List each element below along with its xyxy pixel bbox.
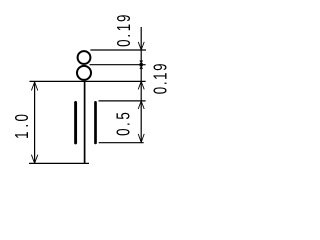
svg-text:9: 9	[114, 15, 135, 22]
label 0.19 (top ball diameter)	[114, 39, 135, 46]
svg-text:.: .	[12, 124, 33, 128]
arrow down at 0.19 top (outside above line B)	[138, 42, 144, 50]
svg-text:5: 5	[113, 112, 134, 119]
extension line A (bottom of ball, y=81.4)	[30, 80, 146, 82]
left pad bar	[74, 103, 77, 143]
top ball (upper circle of component)	[78, 51, 91, 64]
bottom ball (lower circle of component)	[77, 66, 91, 80]
lead wire (vertical lead from bottom ball)	[84, 81, 86, 163]
arrow down at 1.0 bottom	[31, 155, 37, 164]
arrow up at 0.5 top	[138, 101, 144, 109]
label 0.19 (bottom ball diameter)	[150, 87, 171, 94]
dimension line left (1.0 dim)	[34, 82, 36, 163]
arrow down at 0.5 bottom	[138, 134, 144, 143]
svg-text:1: 1	[12, 131, 33, 138]
dimension line right (0.19/0.19/0.5 shared)	[140, 27, 142, 142]
label 1.0 (lead length)	[12, 131, 33, 138]
svg-text:0: 0	[12, 114, 33, 121]
svg-text:1: 1	[114, 24, 135, 31]
svg-text:9: 9	[150, 63, 171, 70]
arrow up at 1.0 top	[31, 82, 37, 91]
svg-text:0: 0	[114, 39, 135, 46]
svg-text:.: .	[150, 81, 171, 85]
svg-text:0: 0	[150, 87, 171, 94]
label 0.5 (pad height)	[113, 128, 134, 135]
extension line D (top of pads, y=100.9)	[99, 100, 146, 102]
svg-text:.: .	[114, 34, 135, 38]
svg-text:1: 1	[150, 72, 171, 79]
extension line E (bottom of pads, y=142.7)	[99, 142, 144, 144]
extension line B (top of top ball, y=49.8)	[90, 49, 146, 51]
double arrow dot at junction line C	[140, 63, 143, 66]
extension line C (junction of balls, y=64.7)	[90, 64, 146, 66]
right pad bar	[94, 102, 97, 142]
extension line F (bottom of lead, y=163.4)	[29, 162, 89, 164]
svg-text:0: 0	[113, 128, 134, 135]
svg-text:.: .	[113, 122, 134, 126]
arrow up at line A (outside below, for lower 0.19)	[138, 81, 144, 89]
